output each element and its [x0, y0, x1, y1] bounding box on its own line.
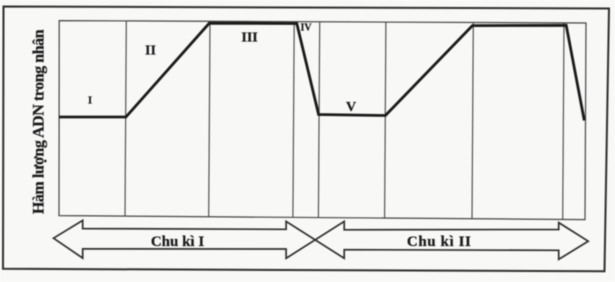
phase divider 3	[293, 22, 294, 218]
arrow Chu ki I and arrow Chu ki II crossed outline	[54, 220, 589, 259]
svg-text:Chu kì II: Chu kì II	[407, 234, 472, 250]
phase divider 6	[472, 23, 473, 219]
svg-text:V: V	[346, 100, 356, 115]
phase divider 2	[209, 21, 210, 217]
DNA content curve	[59, 23, 584, 120]
svg-text:Chu kì I: Chu kì I	[151, 234, 205, 250]
svg-text:II: II	[145, 44, 156, 59]
svg-text:III: III	[241, 30, 257, 45]
phase divider 4	[318, 22, 319, 218]
phase divider 7	[563, 23, 564, 220]
svg-text:IV: IV	[300, 23, 312, 34]
phase divider 1	[125, 21, 126, 216]
svg-text:I: I	[88, 95, 92, 107]
plot box	[59, 21, 586, 220]
phase divider 5	[385, 22, 386, 218]
svg-text:Hàm lượng ADN trong nhân: Hàm lượng ADN trong nhân	[31, 29, 48, 214]
